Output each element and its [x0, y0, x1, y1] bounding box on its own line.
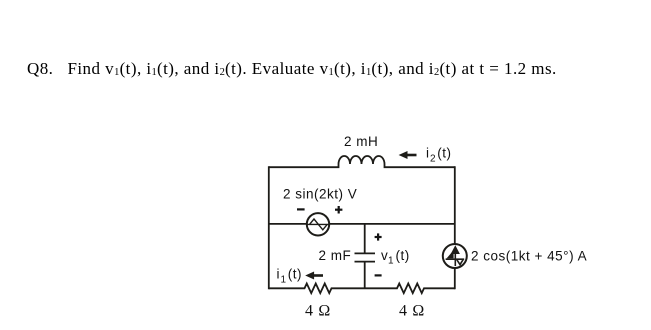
svg-text:4 Ω: 4 Ω [305, 303, 331, 320]
svg-text:2 cos(1kt + 45°) A: 2 cos(1kt + 45°) A [471, 249, 587, 264]
svg-text:i: i [426, 146, 430, 161]
svg-text:4 Ω: 4 Ω [399, 303, 425, 320]
svg-text:2: 2 [430, 154, 436, 165]
svg-text:(t): (t) [437, 146, 451, 161]
svg-text:i: i [277, 267, 281, 282]
svg-text:(t): (t) [288, 267, 302, 282]
svg-text:(t): (t) [396, 248, 410, 263]
svg-text:2 mH: 2 mH [344, 134, 378, 149]
svg-text:1: 1 [388, 256, 394, 267]
svg-text:2 mF: 2 mF [319, 248, 352, 263]
svg-text:1: 1 [281, 275, 287, 286]
svg-text:2 sin(2kt) V: 2 sin(2kt) V [283, 187, 357, 202]
